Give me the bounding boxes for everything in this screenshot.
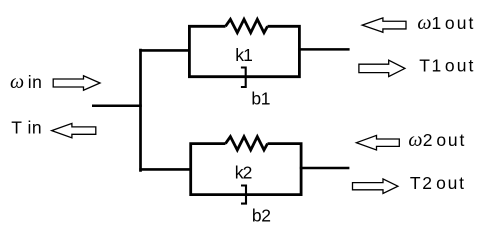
svg-text:T in: T in (11, 118, 42, 138)
wire branch vertical (139, 49, 142, 172)
svg-text:k2: k2 (235, 163, 252, 183)
wire input stub (92, 104, 142, 107)
arrow omega 2 out (left) (356, 135, 399, 150)
svg-text:T2out: T2out (410, 173, 466, 193)
label b1 (251, 88, 270, 108)
spring k1 (226, 19, 268, 32)
label omega 1 out (417, 12, 475, 34)
wire bottom connector (139, 168, 191, 171)
svg-text:T1out: T1out (419, 56, 475, 76)
arrow omega in (right) (53, 76, 100, 90)
svg-text:k1: k1 (235, 45, 252, 65)
arrow omega 1 out (left) (362, 18, 406, 32)
label k2 (235, 163, 252, 183)
svg-text:b2: b2 (252, 206, 271, 226)
label b2 (252, 206, 271, 226)
damper b2 (241, 186, 246, 204)
block 2 outline (191, 144, 301, 195)
label omega in (10, 71, 42, 93)
label omega 2 out (408, 129, 466, 151)
label k1 (235, 45, 252, 65)
arrow T in (left) (52, 123, 96, 137)
label T in (11, 118, 42, 138)
label T 2 out (410, 173, 466, 193)
arrow T 2 out (right) (353, 179, 398, 194)
arrow T 1 out (right) (359, 60, 405, 76)
wire top connector (139, 49, 190, 52)
spring k2 (226, 137, 268, 150)
svg-text:ω1out: ω1out (417, 12, 475, 34)
svg-text:ω2out: ω2out (408, 129, 466, 151)
wire output 2 (300, 167, 350, 170)
wire output 1 (299, 48, 350, 51)
block 1 outline (189, 26, 299, 76)
svg-text:b1: b1 (251, 88, 270, 108)
damper b1 (241, 68, 246, 88)
label T 1 out (419, 56, 475, 76)
